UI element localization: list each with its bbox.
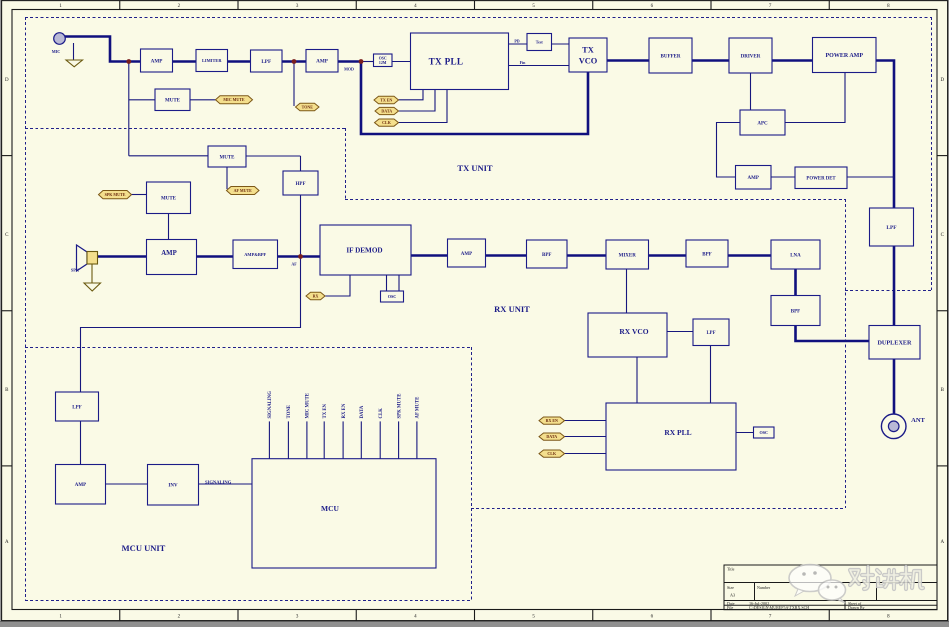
- svg-text:Drawn By: Drawn By: [848, 605, 865, 610]
- svg-text:TX: TX: [582, 46, 594, 55]
- svg-text:Number: Number: [757, 585, 771, 590]
- svg-text:MUTE: MUTE: [161, 197, 177, 202]
- svg-text:POWER AMP: POWER AMP: [826, 53, 864, 59]
- svg-text:MCU: MCU: [321, 504, 339, 513]
- svg-text:DATA: DATA: [360, 405, 365, 418]
- svg-text:LPF: LPF: [261, 59, 271, 65]
- svg-text:BPF: BPF: [542, 253, 551, 258]
- svg-text:RX PLL: RX PLL: [664, 428, 691, 437]
- svg-text:MIXER: MIXER: [619, 253, 637, 258]
- svg-text:DATA: DATA: [381, 108, 392, 113]
- svg-text:Test: Test: [536, 39, 544, 44]
- svg-text:SIGNALING: SIGNALING: [205, 480, 232, 485]
- svg-text:AMP: AMP: [748, 176, 759, 181]
- svg-text:BUFFER: BUFFER: [661, 54, 681, 59]
- svg-text:CLK: CLK: [547, 451, 557, 456]
- svg-text:MIC MUTE: MIC MUTE: [223, 97, 245, 102]
- svg-text:12M: 12M: [379, 61, 387, 65]
- svg-text:HPF: HPF: [296, 182, 306, 187]
- svg-text:OSC: OSC: [379, 56, 387, 60]
- svg-text:TX EN: TX EN: [323, 403, 328, 418]
- svg-text:AMP: AMP: [75, 483, 86, 488]
- svg-text:OSC: OSC: [388, 294, 397, 299]
- svg-text:TX PLL: TX PLL: [429, 57, 464, 67]
- svg-text:ANT: ANT: [911, 417, 925, 424]
- svg-text:A: A: [5, 540, 9, 545]
- svg-text:SPK: SPK: [71, 268, 80, 273]
- svg-text:MIC MUTE: MIC MUTE: [306, 393, 311, 418]
- svg-text:DATA: DATA: [546, 434, 557, 439]
- svg-text:RX VCO: RX VCO: [619, 327, 648, 336]
- svg-text:DRIVER: DRIVER: [741, 54, 761, 59]
- svg-text:MUTE: MUTE: [220, 155, 236, 160]
- svg-text:A3: A3: [730, 593, 735, 598]
- svg-text:AMP: AMP: [151, 58, 164, 64]
- svg-text:VCO: VCO: [579, 57, 598, 66]
- svg-text:CLK: CLK: [382, 120, 392, 125]
- svg-text:C:\DESIGN\MUREF5A\TXRX.SCH: C:\DESIGN\MUREF5A\TXRX.SCH: [749, 605, 809, 610]
- svg-text:LPF: LPF: [72, 405, 81, 410]
- svg-text:RX: RX: [313, 293, 319, 298]
- svg-text:MIC: MIC: [52, 49, 61, 54]
- svg-text:LPF: LPF: [886, 225, 897, 231]
- svg-text:CLK: CLK: [379, 408, 384, 419]
- svg-text:A: A: [940, 540, 944, 545]
- svg-text:RX EN: RX EN: [342, 403, 347, 418]
- svg-text:MCU UNIT: MCU UNIT: [122, 543, 166, 553]
- svg-text:Title: Title: [727, 567, 735, 572]
- svg-text:APC: APC: [757, 121, 768, 126]
- svg-text:AMP: AMP: [461, 252, 472, 257]
- svg-text:TX EN: TX EN: [380, 97, 392, 102]
- svg-text:SIGNALING: SIGNALING: [268, 391, 273, 419]
- svg-text:LPF: LPF: [706, 331, 715, 336]
- svg-text:RX EN: RX EN: [546, 418, 558, 423]
- svg-text:IF DEMOD: IF DEMOD: [346, 247, 382, 255]
- svg-text:MOD: MOD: [344, 67, 354, 72]
- svg-text:File: File: [727, 605, 733, 610]
- svg-text:TONE: TONE: [302, 104, 314, 109]
- svg-text:POWER DET: POWER DET: [806, 176, 836, 181]
- svg-text:LNA: LNA: [790, 253, 801, 258]
- svg-text:BPF: BPF: [702, 252, 711, 257]
- svg-text:BPF: BPF: [791, 309, 800, 314]
- svg-text:SPK MUTE: SPK MUTE: [105, 192, 126, 197]
- svg-text:SPK MUTE: SPK MUTE: [397, 394, 402, 419]
- svg-text:AF: AF: [291, 262, 297, 267]
- svg-text:AF MUTE: AF MUTE: [234, 188, 253, 193]
- svg-text:Size: Size: [727, 585, 734, 590]
- svg-text:OSC: OSC: [759, 430, 768, 435]
- svg-text:AF MUTE: AF MUTE: [416, 397, 421, 419]
- svg-text:AMP&BPF: AMP&BPF: [244, 252, 266, 257]
- svg-text:RX UNIT: RX UNIT: [494, 304, 530, 314]
- svg-text:TX UNIT: TX UNIT: [457, 163, 493, 173]
- svg-text:D: D: [5, 78, 9, 83]
- svg-text:D: D: [940, 78, 944, 83]
- svg-text:LIMITER: LIMITER: [202, 58, 222, 63]
- svg-text:AMP: AMP: [316, 59, 329, 65]
- svg-text:PD: PD: [514, 39, 519, 44]
- svg-text:MUTE: MUTE: [165, 99, 181, 104]
- svg-text:AMP: AMP: [161, 250, 176, 257]
- svg-text:DUPLEXER: DUPLEXER: [877, 339, 912, 346]
- svg-text:Fin: Fin: [520, 60, 527, 65]
- svg-text:INV: INV: [168, 484, 178, 489]
- svg-text:TONE: TONE: [287, 405, 292, 419]
